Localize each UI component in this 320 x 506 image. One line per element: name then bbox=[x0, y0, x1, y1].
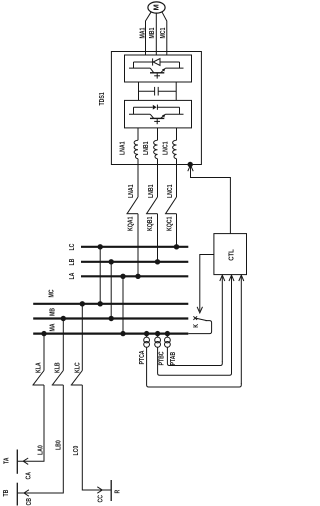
svg-text:LC0: LC0 bbox=[72, 445, 80, 455]
switch KLA bbox=[32, 331, 46, 385]
svg-text:MB: MB bbox=[49, 308, 57, 316]
svg-text:KQA1: KQA1 bbox=[127, 216, 135, 231]
node KQC1-LC bbox=[174, 244, 179, 249]
transistor Q2 (IGBT) bbox=[129, 107, 184, 124]
wire LNC1 output bbox=[166, 159, 176, 198]
inductor LNB1 bbox=[142, 128, 157, 159]
node TDS1 control tap bbox=[188, 162, 193, 167]
diode D1 bbox=[134, 58, 180, 65]
terminal TB bbox=[2, 483, 17, 506]
svg-text:KQB1: KQB1 bbox=[146, 216, 154, 231]
svg-text:KLC: KLC bbox=[74, 362, 82, 373]
svg-text:CTL: CTL bbox=[228, 249, 236, 260]
wire MC1 (motor phase C) bbox=[159, 12, 167, 55]
wire CTL to K bbox=[197, 255, 214, 313]
connector CC bbox=[97, 487, 105, 503]
terminal TA bbox=[3, 450, 18, 474]
bus MC bbox=[33, 289, 188, 304]
terminal R bbox=[111, 480, 122, 501]
switch KQA1 bbox=[126, 197, 138, 276]
wire LC0 bbox=[72, 385, 110, 490]
power module U2 (lower) bbox=[125, 100, 192, 128]
voltage transformer PTBC bbox=[155, 331, 232, 375]
svg-text:LB0: LB0 bbox=[55, 440, 63, 450]
inductor LNA1 bbox=[119, 128, 138, 159]
switch KLC bbox=[71, 301, 85, 385]
converter box TDS1 bbox=[98, 52, 201, 165]
wire LA0 bbox=[18, 385, 45, 461]
controller CTL bbox=[214, 234, 247, 275]
node MC tie bbox=[98, 301, 103, 306]
bus LC bbox=[68, 243, 188, 250]
voltage transformer PTCA bbox=[138, 331, 241, 387]
wire PTAB to CTL bbox=[220, 275, 225, 362]
svg-text:MB1: MB1 bbox=[148, 27, 156, 38]
node LB tie bbox=[109, 259, 114, 264]
node MA tie bbox=[120, 331, 125, 336]
capacitor C1 bbox=[139, 87, 177, 96]
wire LNB1 output bbox=[147, 159, 157, 198]
connector CB bbox=[24, 490, 34, 506]
svg-text:LC: LC bbox=[68, 243, 76, 250]
dc link wire right bbox=[175, 82, 177, 100]
svg-text:TDS1: TDS1 bbox=[98, 92, 106, 106]
wire LB-MB tie bbox=[110, 262, 112, 319]
svg-text:TB: TB bbox=[2, 489, 10, 496]
inductor LNC1 bbox=[162, 128, 177, 159]
svg-text:LNB1: LNB1 bbox=[142, 141, 150, 155]
wire LB0 bbox=[18, 385, 64, 493]
svg-text:LNA1: LNA1 bbox=[119, 141, 127, 155]
svg-text:R: R bbox=[114, 489, 122, 493]
node KQB1-LB bbox=[155, 259, 160, 264]
svg-text:LNA1: LNA1 bbox=[127, 184, 135, 198]
diode D2 bbox=[134, 105, 180, 110]
switch KQC1 bbox=[165, 197, 177, 247]
svg-text:KQC1: KQC1 bbox=[166, 216, 174, 231]
wire PTBC to CTL bbox=[229, 275, 234, 372]
svg-text:K: K bbox=[192, 324, 200, 328]
svg-text:MC: MC bbox=[48, 289, 56, 297]
svg-text:KLB: KLB bbox=[54, 362, 62, 373]
transistor Q1 (IGBT) bbox=[129, 62, 184, 79]
switch KLB bbox=[52, 316, 66, 385]
svg-text:MA: MA bbox=[49, 323, 57, 331]
bus LA bbox=[68, 272, 188, 279]
wire LNA1 output bbox=[127, 159, 138, 198]
voltage transformer PTAB bbox=[165, 331, 223, 366]
node MB tie bbox=[109, 316, 114, 321]
wire CTL to TDS1 bbox=[188, 165, 231, 234]
power module U1 (upper) bbox=[125, 55, 192, 82]
svg-text:TA: TA bbox=[3, 457, 11, 464]
wire MA1 (motor phase A) bbox=[139, 12, 151, 55]
svg-text:PTAB: PTAB bbox=[169, 352, 177, 366]
switch KQB1 bbox=[146, 197, 158, 262]
wire LA-MA tie bbox=[122, 276, 124, 333]
connector CA bbox=[23, 458, 32, 480]
dc link wire left bbox=[138, 82, 140, 100]
svg-text:LB: LB bbox=[68, 258, 76, 265]
node LC tie bbox=[98, 244, 103, 249]
svg-text:PTCA: PTCA bbox=[138, 350, 146, 364]
svg-text:LNB1: LNB1 bbox=[147, 184, 155, 198]
svg-text:LA0: LA0 bbox=[37, 445, 45, 455]
bus MB bbox=[33, 308, 188, 319]
svg-text:MC1: MC1 bbox=[159, 27, 167, 38]
svg-text:LA: LA bbox=[68, 272, 76, 279]
node LA tie bbox=[120, 274, 125, 279]
svg-text:KLA: KLA bbox=[35, 362, 43, 373]
svg-text:M: M bbox=[152, 4, 161, 10]
bus MA bbox=[33, 323, 188, 333]
wire LC-MC tie bbox=[99, 247, 101, 304]
svg-text:PTBC: PTBC bbox=[158, 351, 166, 365]
node KQA1-LA bbox=[135, 274, 140, 279]
svg-text:CC: CC bbox=[97, 495, 105, 503]
wire MB1 (motor phase B) bbox=[148, 13, 156, 55]
switch K bbox=[188, 316, 211, 333]
svg-text:LNC1: LNC1 bbox=[162, 141, 170, 155]
svg-text:CB: CB bbox=[25, 498, 33, 506]
wire PTCA to CTL bbox=[239, 275, 244, 383]
svg-text:CA: CA bbox=[25, 472, 33, 480]
motor M1 bbox=[148, 2, 165, 13]
svg-text:LNC1: LNC1 bbox=[166, 184, 174, 198]
svg-text:MA1: MA1 bbox=[139, 27, 147, 38]
bus LB bbox=[68, 258, 188, 265]
